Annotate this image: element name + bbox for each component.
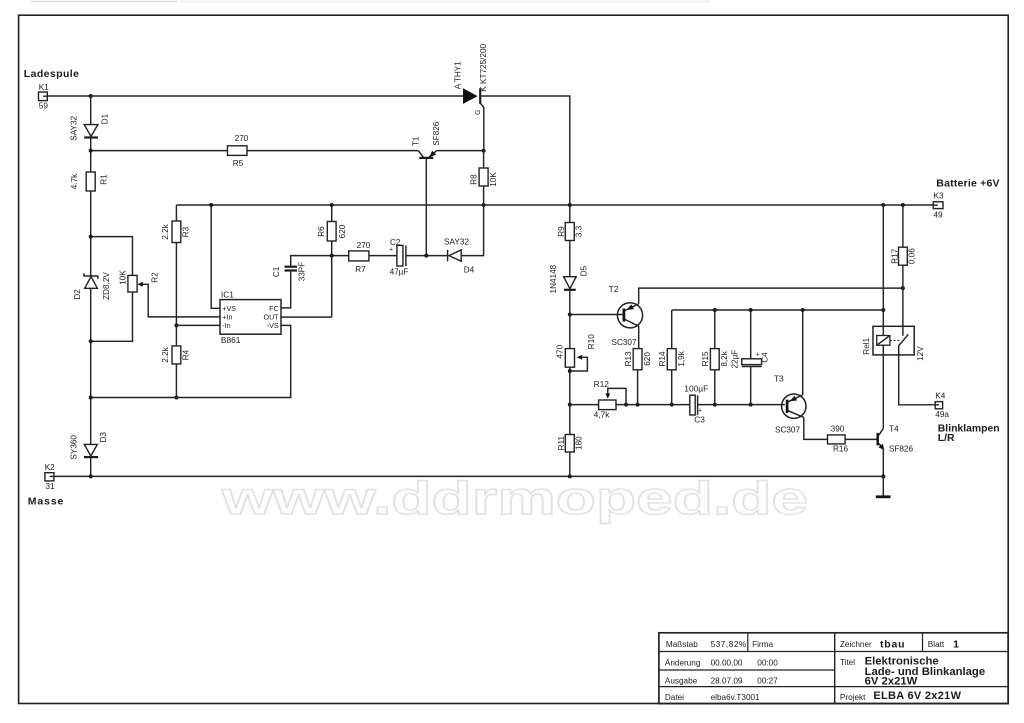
svg-text:R1: R1 — [99, 174, 108, 185]
svg-text:G: G — [475, 110, 482, 115]
node junction bus/R17 — [901, 203, 905, 207]
wire bus to R17 — [902, 205, 904, 247]
resistor R17 — [890, 247, 916, 265]
svg-text:00:27: 00:27 — [757, 676, 778, 685]
svg-text:Batterie +6V: Batterie +6V — [936, 177, 999, 189]
wire rail C3 to T3 base — [698, 404, 785, 406]
wire R4 to -VS rail — [175, 364, 177, 398]
svg-text:10K: 10K — [489, 172, 498, 187]
svg-text:R5: R5 — [233, 159, 244, 168]
relay Rel1 12V — [862, 326, 925, 361]
wire T2 emitter to R13 — [638, 326, 640, 348]
node junction C4 top — [749, 308, 753, 312]
svg-text:Rel1: Rel1 — [862, 337, 871, 354]
svg-text:R2: R2 — [151, 272, 160, 283]
svg-text:49a: 49a — [935, 410, 949, 419]
svg-text:T2: T2 — [609, 284, 619, 294]
diode D4 — [444, 238, 475, 275]
wire R5 to T1 — [247, 150, 418, 152]
svg-text:R10: R10 — [587, 334, 596, 349]
node junction D1/R5 — [89, 149, 93, 153]
transistor T1 SF826 — [411, 121, 441, 255]
svg-text:D5: D5 — [580, 265, 589, 276]
svg-text:2.2k: 2.2k — [161, 346, 170, 362]
wire T2 base node down to R10 — [569, 315, 571, 349]
wire junction to D1 — [90, 96, 92, 124]
svg-text:Ausgabe: Ausgabe — [665, 676, 698, 685]
svg-text:Projekt: Projekt — [840, 693, 866, 702]
svg-text:K3: K3 — [934, 192, 944, 201]
svg-text:-In: -In — [222, 321, 230, 330]
node junction R11/Masse — [568, 474, 572, 478]
svg-text:L/R: L/R — [938, 433, 955, 444]
svg-text:K KT725/200: K KT725/200 — [479, 43, 488, 91]
svg-text:R17: R17 — [890, 248, 899, 263]
svg-text:00.00.00: 00.00.00 — [711, 659, 743, 668]
connector K3 — [933, 192, 944, 220]
svg-text:180: 180 — [575, 436, 584, 450]
svg-text:31: 31 — [46, 482, 56, 491]
svg-text:K1: K1 — [39, 83, 49, 92]
diode D3 — [69, 432, 108, 460]
resistor R14 — [658, 310, 686, 405]
svg-text:D3: D3 — [99, 432, 108, 443]
wire bus to relay coil (left vert) — [882, 205, 884, 326]
svg-text:D1: D1 — [100, 113, 109, 124]
svg-text:R7: R7 — [355, 265, 366, 274]
svg-text:-VS: -VS — [267, 321, 279, 330]
node junction bus/relay — [881, 203, 885, 207]
svg-text:390: 390 — [831, 425, 845, 434]
resistor R11 — [557, 435, 584, 453]
potentiometer R12 — [594, 379, 626, 419]
wire D3 to Masse bus — [90, 457, 92, 477]
svg-text:www.ddrmoped.de: www.ddrmoped.de — [221, 472, 808, 524]
wire thyristor cathode to right — [481, 96, 570, 205]
title block row lines left — [659, 652, 835, 687]
node junction T1 base / C2-D4 — [424, 254, 428, 258]
svg-text:R3: R3 — [182, 226, 191, 237]
wire +In from R2 wiper — [143, 284, 220, 317]
resistor R15 — [701, 310, 729, 405]
svg-text:+: + — [755, 351, 759, 358]
svg-text:Blatt: Blatt — [928, 640, 945, 649]
svg-text:470: 470 — [555, 344, 564, 358]
svg-text:R14: R14 — [658, 351, 667, 366]
capacitor C1 — [272, 262, 307, 308]
svg-text:+: + — [389, 247, 393, 254]
wire R11 bottom — [569, 452, 571, 476]
resistor R8 — [469, 151, 498, 187]
thyristor THY1 KT725/200 — [454, 43, 489, 150]
node junction -VS rail — [89, 396, 93, 400]
svg-text:tbau: tbau — [880, 639, 905, 651]
svg-text:R8: R8 — [469, 174, 478, 185]
resistor R16 — [828, 425, 849, 454]
node junction D3/Masse — [89, 474, 93, 478]
node junction R4/-VS rail — [174, 396, 178, 400]
node junction R14/rail — [670, 403, 674, 407]
svg-text:47µF: 47µF — [390, 267, 409, 276]
node junction bus/+VS — [209, 203, 213, 207]
wire D2 to D3 — [90, 288, 92, 444]
wire D4 to R8 vertical — [461, 186, 483, 256]
resistor R13 — [624, 349, 652, 370]
svg-text:537,82%: 537,82% — [711, 640, 747, 649]
wire bus to R9 — [569, 205, 571, 223]
svg-text:ZD8,2V: ZD8,2V — [102, 272, 111, 300]
wire R17 to relay switch — [902, 265, 904, 326]
resistor R1 — [70, 172, 109, 191]
node junction T4/Masse bus — [881, 474, 885, 478]
svg-text:elba6v.T3001: elba6v.T3001 — [711, 693, 760, 702]
resistor R4 — [161, 346, 191, 364]
title block sub divider Firma — [747, 633, 749, 652]
potentiometer R2 — [91, 237, 160, 342]
capacitor C3 100uF — [684, 384, 708, 425]
svg-text:0,06: 0,06 — [907, 248, 916, 264]
scan artifact top edge — [31, 1, 178, 3]
svg-text:Datei: Datei — [665, 693, 684, 702]
svg-text:620: 620 — [643, 352, 652, 366]
svg-text:28.07.09: 28.07.09 — [711, 676, 743, 685]
resistor R5 — [228, 134, 249, 168]
svg-text:SC307: SC307 — [612, 338, 637, 347]
svg-text:1: 1 — [953, 639, 959, 651]
svg-text:Masse: Masse — [28, 495, 65, 507]
bus +6V horizontal — [176, 204, 933, 206]
svg-text:8,2k: 8,2k — [720, 350, 729, 366]
node junction C4/rail — [749, 403, 753, 407]
diode D1 — [70, 113, 110, 140]
connector K2 — [45, 463, 55, 491]
wire R6 bottom to OUT — [281, 241, 332, 317]
node junction R15 top — [713, 308, 717, 312]
wire C2 to D4 — [406, 255, 448, 257]
zener diode D2 — [73, 272, 111, 300]
transistor T2 SC307 — [609, 284, 643, 347]
transistor T4 SF826 — [878, 424, 914, 454]
svg-text:270: 270 — [357, 241, 371, 250]
wire T4 collector to relay coil — [882, 355, 884, 428]
wire T2 base — [570, 314, 623, 316]
svg-text:33PF: 33PF — [298, 262, 307, 282]
node junction R12 wiper/rail — [624, 403, 628, 407]
wire T3 collector up — [802, 310, 804, 395]
wire R5 left — [91, 150, 228, 152]
wire -VS rail — [91, 325, 291, 397]
IC1 B861 — [220, 289, 281, 345]
svg-text:R6: R6 — [317, 226, 326, 237]
svg-text:C1: C1 — [272, 266, 281, 277]
node junction rail/R11 — [568, 403, 572, 407]
wire R10 to rail — [569, 367, 571, 404]
wire R1 to D2 — [90, 191, 92, 276]
capacitor C4 22uF — [731, 310, 770, 405]
svg-text:10K: 10K — [119, 270, 128, 285]
node junction R10 wiper — [568, 369, 572, 373]
svg-text:Ladespule: Ladespule — [24, 68, 80, 80]
wire R9 to D5 — [569, 241, 571, 277]
resistor R6 — [317, 222, 347, 242]
svg-text:C3: C3 — [694, 414, 705, 424]
svg-text:4,7k: 4,7k — [594, 409, 611, 419]
potentiometer R10 — [555, 334, 596, 371]
capacitor C2 47uF — [389, 238, 408, 276]
svg-text:SF826: SF826 — [889, 445, 914, 454]
wire rail to R12 — [570, 404, 599, 406]
svg-text:ELBA 6V 2x21W: ELBA 6V 2x21W — [873, 690, 961, 702]
node junction R2-bottom — [89, 339, 93, 343]
node junction D5/T2 base — [568, 313, 572, 317]
wire rail R12 to C3 — [616, 404, 690, 406]
Masse bus — [54, 475, 883, 477]
svg-text:T3: T3 — [774, 374, 784, 384]
svg-text:SAY32: SAY32 — [444, 238, 469, 247]
svg-text:49: 49 — [934, 211, 944, 220]
svg-text:D4: D4 — [464, 266, 475, 275]
svg-text:R11: R11 — [557, 435, 566, 450]
wire R11 top — [569, 405, 571, 435]
svg-text:Änderung: Änderung — [665, 658, 701, 668]
wire K1 to thyristor anode — [47, 95, 463, 97]
svg-text:D2: D2 — [73, 289, 82, 300]
svg-text:2.2k: 2.2k — [161, 223, 170, 239]
wire -In — [176, 324, 220, 326]
transistor T3 SC307 — [774, 374, 806, 435]
resistor R9 — [557, 223, 583, 241]
connector K1 — [39, 83, 50, 111]
wire D1 to R1 — [90, 137, 92, 172]
wire R6 top — [331, 205, 333, 222]
svg-text:6V 2x21W: 6V 2x21W — [865, 675, 918, 687]
wire mid node C1 corner to R7 — [291, 256, 349, 266]
svg-text:4.7k: 4.7k — [70, 173, 79, 189]
svg-text:SF826: SF826 — [432, 121, 441, 146]
node junction bus/R9 — [568, 203, 572, 207]
svg-text:C4: C4 — [760, 352, 769, 363]
wire T1 to gate node — [437, 150, 484, 152]
title block divider center — [834, 633, 836, 704]
wire T3 emitter to R16 — [804, 417, 828, 439]
svg-text:R13: R13 — [624, 351, 633, 366]
wire T2 collector to relay node — [639, 288, 903, 304]
svg-text:SY360: SY360 — [69, 435, 78, 460]
wire R13 to rail — [637, 370, 639, 405]
node junction -In — [174, 323, 178, 327]
node junction R1/R2-top — [89, 235, 93, 239]
ground — [876, 495, 891, 498]
svg-text:Maßstab: Maßstab — [666, 640, 698, 649]
title block frame — [659, 633, 1008, 704]
svg-text:Titel: Titel — [840, 658, 855, 667]
svg-text:59: 59 — [39, 101, 49, 110]
svg-text:T1: T1 — [411, 136, 420, 146]
wire R7 to C2 — [369, 255, 397, 257]
svg-text:Firma: Firma — [752, 640, 773, 649]
svg-text:K2: K2 — [45, 463, 55, 472]
svg-text:620: 620 — [338, 224, 347, 238]
svg-text:1,9k: 1,9k — [677, 350, 686, 366]
svg-text:K4: K4 — [935, 392, 945, 401]
connector K4 — [935, 392, 949, 419]
svg-text:22µF: 22µF — [731, 350, 740, 369]
wire bus to R3 — [175, 205, 177, 221]
title block right row lines — [835, 652, 1009, 687]
wire R16 to T4 base — [845, 438, 877, 440]
resistor R7 — [349, 241, 371, 274]
node junction gate/R8 — [482, 149, 486, 153]
svg-text:R15: R15 — [701, 351, 710, 366]
svg-text:IC1: IC1 — [221, 289, 234, 299]
svg-text:12V: 12V — [916, 346, 925, 361]
node junction bus/R8 — [482, 203, 486, 207]
svg-text:R9: R9 — [557, 226, 566, 237]
svg-text:B861: B861 — [221, 335, 241, 345]
svg-text:270: 270 — [235, 134, 249, 143]
svg-text:Zeichner: Zeichner — [840, 640, 872, 649]
wire R3 to R4 — [175, 243, 177, 346]
wire T4 emitter to ground — [882, 449, 884, 496]
node junction K1/D1 — [89, 94, 93, 98]
node junction R6/C1/R7 — [330, 254, 334, 258]
svg-text:R4: R4 — [182, 349, 191, 360]
svg-text:1N4148: 1N4148 — [549, 264, 558, 293]
svg-text:T4: T4 — [889, 424, 899, 434]
wire relay switch out to K4 — [899, 355, 936, 405]
svg-text:100µF: 100µF — [684, 384, 708, 394]
resistor R3 — [161, 221, 191, 243]
wire D5 to T2 base node — [569, 291, 571, 315]
svg-text:SAY32: SAY32 — [70, 115, 79, 140]
svg-text:3.3: 3.3 — [574, 225, 583, 237]
node junction R17/T2 collector rail — [901, 286, 905, 290]
node junction R15/rail — [713, 403, 717, 407]
rail y310 R14..relay — [672, 309, 884, 311]
svg-text:R16: R16 — [833, 445, 848, 454]
svg-text:00:00: 00:00 — [757, 659, 778, 668]
title block divider Blatt — [922, 633, 924, 652]
node junction T3 collector — [801, 308, 805, 312]
diode D5 — [549, 264, 589, 293]
node junction R13/rail — [636, 403, 640, 407]
node junction rail310/relay vert — [881, 308, 885, 312]
svg-text:SC307: SC307 — [775, 426, 800, 435]
svg-text:R12: R12 — [594, 379, 610, 389]
svg-text:A THY1: A THY1 — [454, 61, 463, 90]
wire +VS from bus to IC1 — [211, 205, 220, 308]
node junction bus/R6 — [330, 203, 334, 207]
